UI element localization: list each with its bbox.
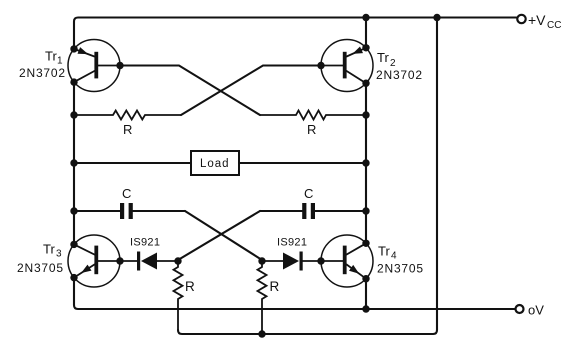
wire: Tr2 base to cross — [181, 66, 321, 116]
junction: bottom wire / right R — [258, 330, 265, 337]
wire: left C diagonal to right R node — [185, 211, 262, 260]
junction: 0V rail / Tr4 emitter — [362, 305, 369, 312]
svg-text:R: R — [270, 279, 280, 294]
node: left R junction — [174, 257, 181, 264]
svg-text:Tr: Tr — [378, 244, 390, 259]
junction: left rail / upper-left R — [70, 111, 77, 118]
junction: right rail / upper-right R — [362, 111, 369, 118]
node: right R junction — [258, 257, 265, 264]
svg-text:Load: Load — [200, 158, 230, 170]
wire: bottom return to +Vcc — [178, 330, 433, 334]
resistor R (upper right) — [260, 111, 366, 120]
svg-text:CC: CC — [547, 20, 561, 31]
label: Tr1 — [45, 49, 63, 67]
wire: 0V rail — [74, 278, 515, 309]
wire: load row right — [239, 162, 366, 164]
svg-text:Tr: Tr — [377, 50, 389, 65]
label: Tr2 — [377, 50, 396, 69]
junction: top rail / Tr2 emitter rail — [362, 14, 369, 21]
capacitor C (right) — [260, 203, 366, 219]
wire: load row left — [74, 162, 191, 164]
junction: right rail / C row — [362, 207, 369, 214]
svg-text:R: R — [307, 122, 316, 137]
wire: Tr1 base to cross — [120, 66, 260, 116]
svg-text:C: C — [122, 186, 131, 201]
svg-text:2N3705: 2N3705 — [17, 261, 64, 275]
svg-text:IS921: IS921 — [277, 237, 307, 249]
junction: left rail / load row — [70, 159, 77, 166]
svg-text:Tr: Tr — [43, 242, 55, 257]
svg-text:oV: oV — [528, 303, 544, 318]
transistor Tr3 (2N3705 npn) — [68, 235, 124, 287]
wire: left rail (Tr1 collector node) — [73, 82, 75, 244]
junction: right rail / load row — [362, 159, 369, 166]
resistor R (lower left, vertical) — [174, 261, 183, 330]
svg-text:3: 3 — [56, 249, 62, 260]
svg-text:1: 1 — [57, 56, 63, 67]
terminal: +Vcc — [517, 15, 525, 23]
wire: Tr2 emitter rail from top — [365, 18, 367, 48]
label: Tr4 — [378, 244, 397, 262]
svg-text:2N3702: 2N3702 — [376, 68, 423, 82]
capacitor C (left) — [74, 203, 185, 219]
transistor Tr4 (2N3705 npn) — [317, 235, 373, 287]
resistor R (lower right, vertical) — [258, 261, 267, 334]
load box — [191, 151, 239, 175]
label: Tr3 — [43, 242, 62, 260]
transistor Tr1 (2N3702 pnp) — [68, 40, 124, 92]
wire: right C diagonal to left R node — [178, 211, 260, 260]
transistor Tr2 (2N3702 pnp) — [317, 40, 373, 92]
svg-text:+V: +V — [528, 12, 546, 28]
svg-text:IS921: IS921 — [130, 237, 160, 249]
wire: right rail (Tr2 collector node) — [365, 83, 367, 243]
svg-text:2N3702: 2N3702 — [19, 66, 66, 80]
svg-text:Tr: Tr — [45, 49, 57, 64]
terminal: 0V — [516, 305, 524, 313]
junction: top rail / right loop vertical — [433, 14, 440, 21]
wire: right loop vertical — [433, 18, 437, 335]
svg-text:2N3705: 2N3705 — [377, 262, 424, 276]
wire: +Vcc top rail — [74, 18, 517, 49]
svg-text:4: 4 — [391, 251, 397, 262]
svg-text:C: C — [304, 186, 313, 201]
resistor R (upper left) — [74, 111, 181, 120]
wire: Tr4 emitter to 0V — [365, 279, 367, 309]
junction: left rail / C row — [70, 207, 77, 214]
svg-text:R: R — [123, 122, 132, 137]
diode IS921 (left) — [120, 252, 178, 271]
diode IS921 (right) — [262, 252, 321, 271]
svg-text:R: R — [185, 279, 195, 294]
